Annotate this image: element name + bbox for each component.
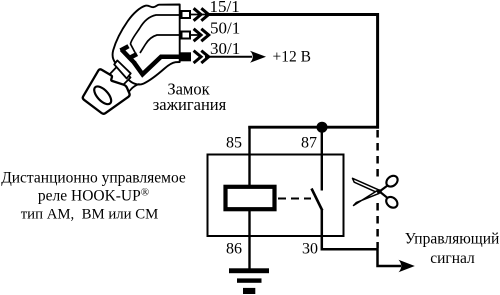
junction dot [317, 122, 328, 133]
connector 50/1 lead [179, 34, 202, 36]
dashed wire (to be cut), upper part [376, 130, 379, 177]
key contact F mark [121, 46, 138, 63]
svg-text:50/1: 50/1 [210, 18, 240, 37]
inner wire to terminal 50/1 [140, 35, 180, 53]
svg-text:87: 87 [301, 135, 317, 152]
relay box [208, 155, 344, 237]
key neck (shaft into lock) [108, 65, 131, 89]
svg-text:30/1: 30/1 [210, 39, 240, 58]
ground symbol [229, 268, 269, 294]
connector 50/1 plug [182, 32, 191, 39]
connector 15/1 lead [179, 14, 209, 16]
connector 50/1 chevrons [194, 29, 209, 41]
wire 15/1 vertical right [376, 13, 379, 129]
dashed wire (to be cut), lower part [376, 203, 379, 248]
thick wire from lock to 30/1 [134, 57, 190, 75]
svg-text:реле HOOK-UP®: реле HOOK-UP® [38, 187, 149, 205]
relay coil [226, 187, 275, 209]
svg-text:тип АМ, ВМ или СМ: тип АМ, ВМ или СМ [21, 207, 159, 223]
scissors (cut mark) [353, 174, 400, 210]
connector 15/1 chevrons [194, 8, 209, 20]
key head hole [91, 84, 114, 107]
connector 30/1 plug (filled) [181, 53, 191, 61]
lock chin line [128, 84, 140, 93]
wire to terminal 85 [248, 126, 250, 186]
svg-text:30: 30 [302, 241, 318, 258]
inner wire to terminal 15/1 [131, 15, 180, 53]
wire 15/1 horizontal [205, 13, 379, 16]
ignition lock body (Замок зажигания) [113, 5, 180, 93]
wire terminal 86 to ground [248, 209, 250, 269]
svg-text:+12 В: +12 В [273, 49, 311, 66]
svg-text:Дистанционно управляемое: Дистанционно управляемое [1, 170, 186, 187]
connector 30/1 chevrons [194, 51, 209, 63]
key head [83, 69, 130, 113]
wire horizontal bus to relay [248, 126, 379, 129]
svg-text:сигнал: сигнал [430, 250, 475, 267]
coil-switch dashed link [278, 198, 311, 200]
arrowhead +12V [250, 51, 266, 63]
arrowhead control signal [399, 260, 415, 273]
wire terminal 30 down and out [322, 209, 401, 266]
relay switch arm [312, 189, 323, 211]
svg-text:86: 86 [226, 241, 242, 258]
lock cylinder ring [114, 60, 131, 78]
svg-text:Управляющий: Управляющий [405, 231, 500, 248]
svg-text:зажигания: зажигания [153, 95, 227, 114]
svg-text:85: 85 [226, 135, 242, 152]
wire to terminal 87 [321, 127, 323, 191]
connector 15/1 plug [182, 11, 191, 18]
wire 30/1 to +12V [205, 56, 252, 58]
